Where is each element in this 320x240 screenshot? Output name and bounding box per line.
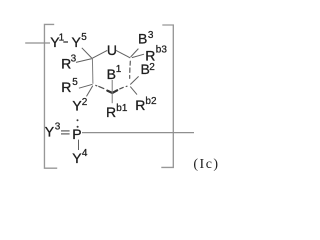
bond C5 to Y2 [87, 86, 93, 97]
svg-text:1: 1 [59, 33, 65, 44]
right bracket [161, 25, 173, 167]
svg-text:b3: b3 [156, 44, 168, 55]
svg-text:1: 1 [116, 64, 122, 75]
ring bond C2-C3 dashed [129, 61, 132, 78]
ring bond C1-C5 vertical [91, 58, 94, 84]
bond Y5 to C1 [82, 48, 92, 58]
bond R5 to C5 [79, 84, 93, 88]
wire backbone left to Y1 [25, 42, 50, 44]
ring bond C3-C4 dashed [120, 86, 127, 89]
svg-text:Y: Y [72, 150, 82, 166]
bond B1-C4-Rb1 vertical [111, 80, 113, 103]
bond C2 to Rb3 [132, 54, 144, 57]
left bracket [44, 24, 57, 168]
svg-text:4: 4 [82, 148, 88, 159]
svg-text:R: R [61, 79, 71, 95]
svg-text:R: R [106, 104, 116, 120]
svg-text:R: R [135, 97, 145, 113]
svg-text:3: 3 [148, 30, 154, 41]
svg-text:5: 5 [72, 77, 78, 88]
svg-text:2: 2 [149, 62, 155, 73]
dotted bond Y2 to P [77, 119, 79, 121]
svg-text:b2: b2 [145, 96, 157, 107]
double bond Y3=P [61, 130, 70, 132]
svg-text:3: 3 [55, 122, 61, 133]
svg-text:(Ic): (Ic) [193, 157, 219, 172]
svg-text:U: U [107, 42, 117, 58]
wire backbone P to right [82, 132, 194, 134]
svg-text:B: B [138, 31, 147, 47]
bold hash chevron at C4 [107, 91, 112, 93]
ring bond C5-C4 dashed [96, 85, 104, 88]
svg-text:Y: Y [45, 124, 55, 140]
bond C3 to Rb2 [130, 87, 137, 95]
bond C3 to B2 [130, 76, 138, 84]
svg-text:B: B [107, 66, 116, 82]
svg-text:3: 3 [71, 53, 77, 64]
svg-text:Y: Y [72, 34, 82, 50]
svg-text:5: 5 [81, 32, 87, 43]
ring bond U-C2 [116, 50, 130, 58]
svg-text:2: 2 [82, 97, 88, 108]
svg-text:b1: b1 [116, 103, 128, 114]
bond C2 to B3 [131, 49, 139, 57]
bond P to Y4 [78, 140, 80, 150]
svg-text:P: P [72, 126, 81, 142]
ring bond C1-U [92, 50, 107, 58]
bond Y1-Y5 [63, 41, 68, 43]
bond R3 to C1 [76, 59, 92, 63]
